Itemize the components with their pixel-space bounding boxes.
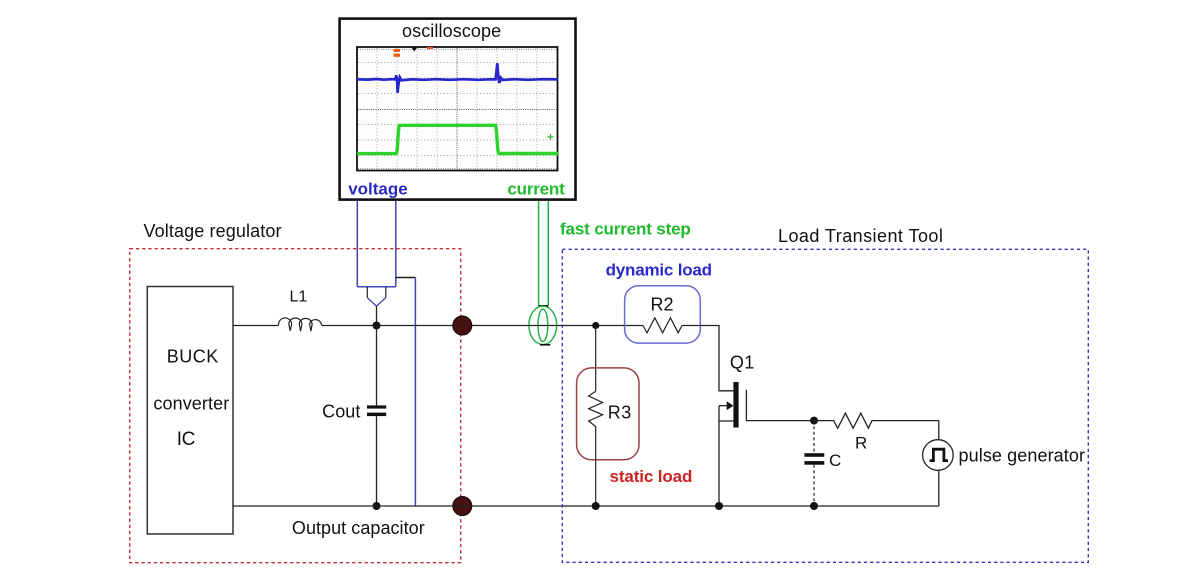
svg-text:R: R (855, 433, 867, 452)
wire L1 to load box (322, 325, 643, 327)
resistor R2 (643, 318, 682, 333)
resistor R (814, 413, 939, 428)
trigger level dash (orange) (427, 47, 433, 49)
oscilloscope box U-SCOPE (340, 19, 576, 200)
svg-text:Load Transient Tool: Load Transient Tool (778, 226, 943, 246)
dynamic load rounded outline (625, 286, 701, 343)
current probe clamp (green ellipses) (529, 306, 557, 344)
node gate RC (810, 417, 818, 425)
node bottom (cout) (373, 502, 381, 510)
wire R2 to Q1 drain (682, 326, 733, 391)
svg-text:Output capacitor: Output capacitor (292, 518, 425, 538)
svg-text:Cout: Cout (322, 402, 360, 422)
wire Cout to bottom rail (376, 416, 378, 506)
channel 2 marker (orange) (394, 49, 401, 57)
cursor cross (green) (548, 134, 554, 140)
pulse generator source (923, 440, 954, 471)
node bottom rail Q1 (715, 502, 723, 510)
scope green current trace (357, 125, 558, 153)
wire probe tip to node (376, 306, 378, 325)
svg-text:oscilloscope: oscilloscope (402, 21, 501, 41)
capacitor C (804, 453, 824, 457)
capacitor Cout (367, 405, 386, 408)
wire C to bottom rail (dashed) (813, 465, 815, 506)
terminal dot top (board edge) (453, 316, 472, 335)
scope blue voltage trace (357, 63, 558, 93)
current probe clamp cap (539, 305, 549, 307)
node bottom rail C (810, 502, 818, 510)
svg-text:R3: R3 (608, 402, 632, 422)
wire node to C (dashed) (813, 421, 815, 454)
wire BUCK to L1 (233, 325, 279, 327)
bottom rail wire (233, 505, 939, 507)
svg-text:C: C (829, 451, 841, 470)
svg-text:BUCK: BUCK (167, 346, 219, 366)
resistor R3 (589, 391, 603, 430)
wire R3 to bottom rail (595, 430, 597, 506)
transistor Q1 gate (746, 390, 814, 421)
Load Transient Tool dashed box (562, 249, 1088, 562)
current probe bottom cap (540, 344, 550, 346)
wire R to pulse generator (938, 421, 940, 440)
svg-text:L1: L1 (290, 289, 308, 306)
svg-text:static load: static load (610, 467, 693, 486)
wire node to Cout (376, 326, 378, 406)
voltage probe body (blue) (357, 201, 396, 287)
svg-text:Q1: Q1 (730, 352, 755, 372)
scope screen (357, 47, 558, 171)
scope graticule center axes (358, 48, 557, 170)
node bottom rail R3 (592, 502, 600, 510)
wire scope reference (black jog) (396, 277, 416, 279)
terminal dot bottom (board edge) (453, 497, 472, 516)
svg-text:IC: IC (177, 429, 195, 450)
node R3 top is shared; wire node to R3 (595, 326, 597, 392)
node top rail at load (592, 322, 599, 329)
svg-text:current: current (507, 180, 565, 199)
scope graticule (358, 48, 557, 170)
trigger position marker (412, 48, 418, 52)
svg-text:R2: R2 (651, 295, 674, 315)
transistor Q1 body bar (733, 382, 738, 428)
wire pulse generator to bottom rail (938, 470, 940, 506)
svg-text:dynamic load: dynamic load (606, 261, 712, 280)
current probe leads (green) (539, 201, 549, 306)
voltage regulator dashed box (130, 249, 461, 563)
svg-text:Voltage regulator: Voltage regulator (144, 221, 282, 241)
BUCK converter IC box U1 (147, 287, 233, 535)
inductor L1 (278, 318, 321, 331)
svg-text:pulse generator: pulse generator (959, 446, 1086, 466)
transistor Q1 source (719, 406, 733, 506)
svg-text:converter: converter (153, 394, 229, 414)
svg-text:fast current step: fast current step (560, 220, 691, 239)
svg-text:voltage: voltage (348, 180, 408, 199)
static load rounded outline (577, 368, 639, 460)
node output (top) (373, 322, 381, 330)
transistor Q1 body diode arrow (719, 405, 728, 407)
wire scope ground reference (blue) (414, 278, 416, 507)
voltage probe tip (367, 287, 386, 298)
